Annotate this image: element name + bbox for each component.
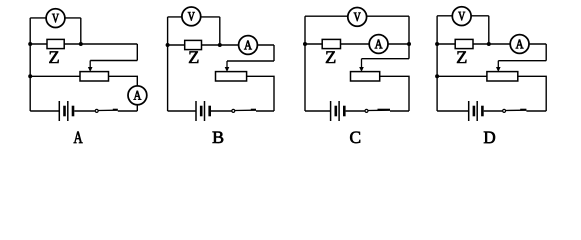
rheostat box (circuit A): [80, 72, 109, 81]
wire: circuit D impedance row: [437, 43, 546, 45]
wire: circuit D bottom row left segment: [437, 110, 469, 112]
wiper arrow (circuit D): [496, 61, 501, 72]
option label C: [350, 132, 360, 144]
wire: circuit C bottom row battery-to-switch segment: [346, 110, 365, 112]
wire: circuit A wiper feed vertical: [136, 44, 138, 61]
wiper arrow (circuit C): [359, 59, 364, 72]
wire: circuit D rheostat right terminal to bottom corner: [518, 76, 546, 111]
wire: circuit A bottom row battery-to-switch segment: [74, 110, 95, 112]
option label B: [213, 132, 224, 143]
voltmeter V (circuit A): [46, 9, 65, 28]
ammeter A (circuit A): [128, 86, 147, 105]
wire: circuit D bottom row battery-to-switch segment: [484, 110, 503, 112]
wire: circuit B bottom row left segment: [168, 110, 196, 112]
wire: circuit A impedance row: [30, 43, 137, 45]
ammeter A (circuit D): [510, 35, 529, 54]
option label D: [484, 132, 495, 143]
junction dot voltmeter drop on Z row, circuit A: [79, 42, 83, 46]
junction dot voltmeter drop on Z row, circuit D: [487, 42, 491, 46]
wire: circuit B wiper feed horizontal: [227, 60, 274, 62]
wiper arrow (circuit A): [88, 61, 93, 73]
junction dot left of Z row, circuit D: [435, 42, 439, 46]
label Z (circuit B): [189, 51, 198, 63]
wire: circuit D wiper feed horizontal: [498, 60, 546, 62]
wire: circuit B wiper feed vertical: [273, 45, 275, 61]
label Z (circuit C): [326, 51, 335, 63]
wire: circuit B voltmeter branch drop: [219, 17, 221, 45]
wire: circuit B bottom row battery-to-switch segment: [211, 110, 232, 112]
junction dot left of Z row, circuit A: [28, 42, 32, 46]
wire: circuit D bottom row switch-to-corner segment: [526, 110, 546, 112]
junction dot left of Z row, circuit B: [166, 43, 170, 47]
wire: circuit C impedance row: [305, 43, 409, 45]
impedance box Z (circuit D): [455, 39, 473, 48]
wire: circuit C top voltmeter-branch row: [305, 15, 409, 17]
wire: circuit A top voltmeter-branch row: [30, 17, 81, 19]
battery (circuit C): [331, 101, 345, 121]
wire: circuit A bottom row switch-to-corner segment: [118, 110, 138, 112]
wire: circuit A rheostat right terminal to bottom corner: [109, 76, 138, 111]
wire: circuit C rheostat right terminal to bottom corner: [380, 76, 409, 111]
wire: circuit C left vertical: [304, 16, 306, 111]
wire: circuit C wiper feed vertical: [408, 44, 410, 59]
label Z (circuit A): [49, 51, 58, 63]
junction dot rheostat row, circuit A: [28, 74, 32, 78]
wire: circuit A voltmeter branch drop: [80, 18, 82, 44]
wire: circuit B impedance row: [168, 44, 274, 46]
wire: circuit C right vertical from top row: [408, 16, 410, 44]
wire: circuit B bottom row switch-to-corner segment: [256, 110, 274, 112]
junction dot voltmeter drop on Z row, circuit B: [218, 43, 222, 47]
junction dot right of Z row, circuit C: [407, 42, 411, 46]
rheostat box (circuit B): [216, 72, 247, 81]
wire: circuit B left vertical: [167, 17, 169, 111]
wire: circuit A bottom row left segment: [30, 110, 59, 112]
voltmeter V (circuit B): [182, 7, 201, 26]
junction dot left of Z row, circuit C: [303, 42, 307, 46]
wire: circuit A rheostat left terminal to left vertical: [30, 75, 80, 77]
battery (circuit B): [196, 101, 210, 121]
voltmeter V (circuit C): [348, 8, 367, 27]
wire: circuit B rheostat right terminal to bottom corner: [247, 76, 274, 111]
ammeter A (circuit B): [239, 36, 258, 55]
impedance box Z (circuit B): [185, 40, 202, 49]
battery (circuit A): [59, 101, 73, 121]
wire: circuit D top voltmeter-branch row: [437, 15, 489, 17]
wire: circuit D left vertical: [436, 16, 438, 111]
ammeter A (circuit C): [369, 35, 388, 54]
battery (circuit D): [469, 101, 483, 121]
switch S (circuit D): [503, 109, 527, 113]
wire: circuit A left vertical: [29, 18, 31, 111]
label Z (circuit D): [457, 51, 466, 63]
wire: circuit B top voltmeter-branch row: [168, 16, 220, 18]
junction dot rheostat row, circuit D: [435, 74, 439, 78]
option label A: [74, 132, 83, 143]
wire: circuit D rheostat left terminal to left vertical: [437, 75, 487, 77]
wiper arrow (circuit B): [225, 61, 230, 72]
voltmeter V (circuit D): [452, 7, 471, 26]
rheostat box (circuit C): [351, 72, 380, 81]
rheostat box (circuit D): [487, 72, 518, 81]
switch S (circuit B): [232, 109, 256, 113]
wire: circuit D voltmeter branch drop: [488, 16, 490, 44]
wire: circuit C bottom row switch-to-corner segment: [390, 110, 409, 112]
wire: circuit A wiper feed horizontal: [90, 60, 137, 62]
wire: circuit C wiper feed horizontal: [362, 58, 410, 60]
impedance box Z (circuit C): [322, 39, 340, 48]
switch S (circuit C): [365, 109, 390, 113]
switch S (circuit A): [95, 109, 118, 113]
wire: circuit D wiper feed vertical: [545, 44, 547, 61]
wire: circuit C bottom row left segment: [305, 110, 331, 112]
impedance box Z (circuit A): [47, 39, 64, 48]
